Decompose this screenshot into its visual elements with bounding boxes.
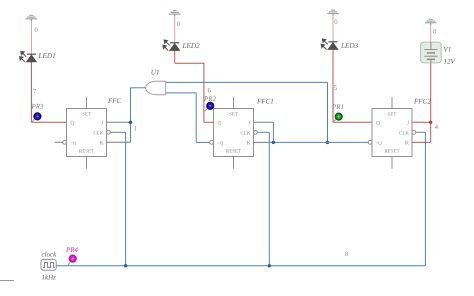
- svg-text:4: 4: [435, 124, 439, 131]
- svg-text:5: 5: [334, 85, 338, 92]
- svg-text:FFC: FFC: [107, 97, 122, 105]
- svg-text:Q: Q: [218, 120, 222, 126]
- svg-text:CLK: CLK: [241, 130, 251, 136]
- svg-text:12V: 12V: [444, 58, 456, 66]
- svg-text:CLK: CLK: [399, 130, 409, 136]
- wire bottom-left edge artifact: [0, 280, 14, 282]
- svg-text:6: 6: [208, 87, 212, 94]
- LED LED3 symbol: [321, 39, 338, 50]
- wire net1 to J of FFC: [107, 121, 131, 123]
- wire net6 horizontal: [175, 62, 204, 64]
- wire U1 input B vertical: [195, 93, 197, 142]
- svg-text:LED3: LED3: [340, 42, 359, 50]
- junction net1: [129, 121, 132, 124]
- svg-text:LED2: LED2: [182, 42, 201, 50]
- ground G4: [425, 19, 437, 25]
- wire CLK of FFC2 drop: [424, 132, 426, 265]
- wire LED3 to corner net5: [332, 49, 334, 122]
- FFC RESET stub: [86, 157, 88, 169]
- junction net8 b: [268, 264, 271, 267]
- junction JK1 tie: [272, 141, 275, 144]
- probe PR3: [32, 113, 41, 122]
- clock source: [41, 259, 56, 270]
- svg-text:PR3: PR3: [31, 103, 45, 111]
- svg-text:clock: clock: [42, 251, 58, 259]
- wire U1 input A vertical: [327, 82, 329, 142]
- svg-text:K: K: [405, 140, 409, 146]
- svg-text:~Q: ~Q: [70, 140, 77, 146]
- svg-text:RESET: RESET: [79, 149, 94, 155]
- wire J1-K1 tie: [272, 122, 274, 142]
- svg-text:FFC1: FFC1: [256, 98, 274, 106]
- wire K of FFC1: [254, 141, 274, 143]
- svg-text:FFC2: FFC2: [413, 98, 431, 106]
- wire J of FFC1: [254, 121, 274, 123]
- wire U1 input B horizontal: [166, 92, 197, 94]
- svg-text:0: 0: [35, 27, 39, 34]
- wire net6 vertical: [203, 63, 205, 122]
- svg-text:LED1: LED1: [38, 52, 56, 60]
- svg-text:1kHz: 1kHz: [42, 274, 57, 282]
- wire net1 vertical: [130, 88, 132, 123]
- wire U1 output: [131, 87, 146, 89]
- wire net1 to K of FFC: [107, 141, 131, 143]
- battery V1: [421, 42, 442, 63]
- AND gate U1: [146, 81, 166, 94]
- LED LED1 symbol: [20, 51, 37, 62]
- svg-text:SET: SET: [388, 112, 397, 118]
- wire net4 to K of FFC2: [412, 141, 431, 143]
- svg-text:SET: SET: [229, 112, 238, 118]
- probe PR2: [204, 102, 214, 111]
- ground G3: [327, 10, 339, 16]
- wire net1 vertical lower: [130, 122, 132, 142]
- svg-text:PR4: PR4: [65, 246, 79, 254]
- junction net8 a: [124, 264, 127, 267]
- wire gnd to LED2: [174, 15, 176, 43]
- wire LED2 down: [174, 50, 176, 63]
- wire CLK of FFC1 stub: [257, 131, 269, 133]
- FFC2 ~Q bubble: [368, 140, 372, 144]
- svg-text:Q: Q: [71, 120, 75, 126]
- svg-text:8: 8: [345, 251, 349, 258]
- wire CLK of FFC1 drop: [268, 132, 270, 265]
- FFC ~Q bubble: [63, 140, 67, 144]
- svg-text:0: 0: [334, 19, 338, 26]
- svg-text:RESET: RESET: [384, 149, 399, 155]
- FFC2 RESET stub: [391, 157, 393, 169]
- svg-text:U1: U1: [151, 69, 160, 77]
- svg-text:CLK: CLK: [94, 130, 104, 136]
- ground G2: [169, 11, 181, 17]
- svg-text:PR2: PR2: [203, 95, 217, 103]
- wire gnd to LED3: [332, 14, 334, 42]
- svg-text:Q: Q: [376, 120, 380, 126]
- wire gnd to LED1: [30, 20, 32, 55]
- FFC1 ~Q bubble: [210, 140, 214, 144]
- wire clock bus net8: [56, 265, 425, 267]
- LED LED2 symbol: [163, 40, 180, 51]
- svg-text:K: K: [247, 140, 251, 146]
- svg-text:~Q: ~Q: [217, 140, 224, 146]
- wire battery to JK of FFC2: [430, 63, 432, 143]
- wire net4 to J of FFC2: [412, 121, 431, 123]
- FFC CLK bubble: [107, 130, 111, 134]
- wire LED1 to corner net7: [30, 61, 32, 122]
- FFC1 RESET stub: [233, 157, 235, 169]
- svg-text:V1: V1: [444, 46, 452, 54]
- wire ~Q stub of FFC: [55, 141, 63, 143]
- svg-text:~Q: ~Q: [376, 140, 383, 146]
- svg-text:RESET: RESET: [226, 149, 241, 155]
- wire U1 input B to ~Q of FFC1: [196, 141, 210, 143]
- FFC2 CLK bubble: [412, 130, 416, 134]
- probe PR4: [68, 255, 76, 265]
- svg-text:K: K: [100, 140, 104, 146]
- flip-flop FFC2: [368, 97, 416, 169]
- svg-text:0: 0: [177, 21, 181, 28]
- junction net4 J: [429, 121, 432, 124]
- wire CLK of FFC2 stub: [416, 131, 426, 133]
- wire net7 to Q of FFC: [31, 121, 66, 123]
- FFC1 SET stub: [233, 97, 235, 109]
- ground G1: [26, 15, 38, 20]
- wire CLK of FFC stub: [110, 131, 125, 133]
- wire net to ~Q of FFC2: [273, 141, 368, 143]
- junction inputA tap: [326, 141, 329, 144]
- wire net5 to Q of FFC2: [333, 121, 372, 123]
- flip-flop FFC: [63, 97, 111, 169]
- FFC SET stub: [86, 97, 88, 109]
- wire net6 to Q of FFC1: [204, 121, 214, 123]
- probe PR1: [333, 113, 342, 122]
- svg-text:0: 0: [433, 29, 437, 36]
- flip-flop FFC1: [210, 97, 258, 169]
- wire U1 input A horizontal: [166, 81, 328, 83]
- svg-text:SET: SET: [82, 112, 91, 118]
- wire CLK of FFC drop: [125, 132, 127, 265]
- svg-text:PR1: PR1: [331, 103, 344, 111]
- FFC2 SET stub: [391, 97, 393, 109]
- FFC1 CLK bubble: [254, 130, 258, 134]
- svg-text:7: 7: [33, 89, 37, 96]
- wire gnd to battery V1: [430, 24, 432, 43]
- svg-text:1: 1: [134, 126, 137, 133]
